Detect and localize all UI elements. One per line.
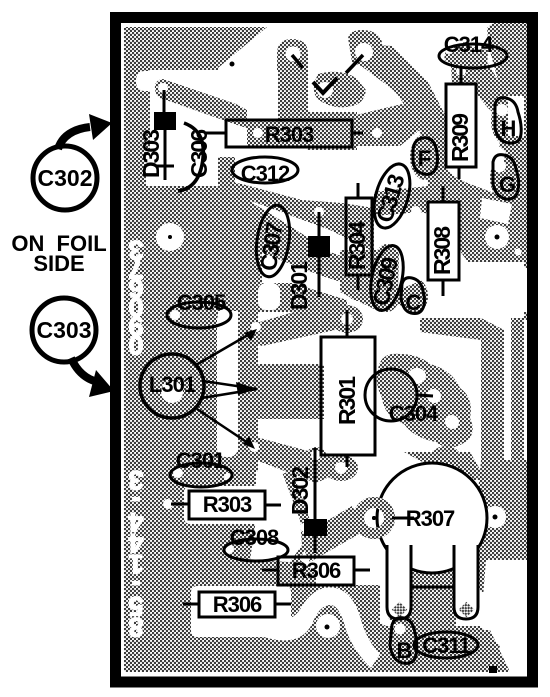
node pad L301 center white <box>161 381 183 403</box>
svg-text:R303: R303 <box>203 492 252 517</box>
wire vertical white strip S1 <box>217 311 238 457</box>
copper trace: wedge right of R303 <box>352 104 432 146</box>
node pad in R303 white (restored) <box>253 128 263 138</box>
node pad arm1 white <box>251 322 261 332</box>
wire R307 left lead <box>392 517 414 520</box>
diode D301 body <box>308 236 330 257</box>
pin pad diamond right leg <box>459 602 475 618</box>
node pad R309 top white <box>456 66 466 76</box>
capacitor C306 bracket <box>178 123 203 191</box>
white triangle bottom right of R308 <box>458 268 528 312</box>
wire R307 legs crossbar <box>411 586 454 589</box>
copper trace: right vertical stripe B <box>511 318 524 555</box>
wire L301 pointer wedge <box>236 382 257 395</box>
capacitor C313 oval <box>368 160 417 232</box>
wire C302 arrow <box>58 127 90 149</box>
copper trace: top band <box>218 27 267 68</box>
svg-text:090673: 090673 <box>128 235 143 360</box>
capacitor C303 callout circle <box>32 298 96 362</box>
node pad P1 white <box>286 47 301 62</box>
copper trace: arm2 to R301 mid wide <box>238 364 324 419</box>
node pad above C304 white <box>408 368 426 384</box>
wire C303 arrow <box>71 358 98 382</box>
svg-text:C311: C311 <box>422 633 470 658</box>
copper trace: under R303 top band <box>247 112 357 150</box>
white wedge bottom right <box>482 560 528 640</box>
white pocket top-left <box>150 70 278 150</box>
node pad C305 left white <box>170 310 180 320</box>
copper trace: band below R304 <box>340 250 406 312</box>
svg-text:R308: R308 <box>429 226 455 275</box>
resistor R307 leg left <box>387 545 411 619</box>
copper trace: vertical finger to R303 <box>277 39 308 119</box>
copper trace: blob under F <box>410 134 440 180</box>
copper trace: arm P3 right <box>351 37 504 218</box>
node pad small white <box>411 206 421 216</box>
wire R308 bottom lead <box>442 280 445 296</box>
wire R304 top lead <box>357 183 360 198</box>
copper trace: mid diagonal band C312 to R304 <box>220 180 374 252</box>
svg-text:C303: C303 <box>37 317 92 343</box>
copper trace: stripe right of R309 <box>450 46 488 86</box>
resistor R309 box <box>446 84 476 167</box>
capacitor C308 <box>224 539 288 561</box>
wire white channel below G <box>480 198 512 224</box>
node pad D301 top white <box>314 207 324 217</box>
node pad ring center white <box>364 508 384 528</box>
svg-text:F: F <box>418 146 431 171</box>
copper trace: bottom center band <box>300 600 500 672</box>
diode D302 body <box>304 519 327 536</box>
node G oval <box>493 155 519 199</box>
node pad P3 white <box>317 82 333 98</box>
wire D302 bottom lead <box>314 536 317 553</box>
copper trace: pad blob G <box>490 155 520 201</box>
wire L301 pointer line 1 <box>196 332 253 365</box>
pin pad diamond left leg <box>392 602 408 618</box>
node pad arm3 white <box>249 442 259 452</box>
copper trace: right edge band upper <box>452 112 528 262</box>
node C oval <box>401 278 425 314</box>
node pad C304 right white <box>427 389 441 403</box>
board frame <box>116 18 533 683</box>
capacitor C301 <box>170 463 232 487</box>
copper trace: R304 bottom pad blob <box>347 279 369 301</box>
svg-text:G: G <box>499 172 515 197</box>
node pad small white2 <box>403 245 413 255</box>
wire D303 bottom lead <box>164 130 167 180</box>
svg-text:H: H <box>501 116 516 141</box>
copper trace: right vertical stripe A <box>420 318 504 560</box>
svg-text:R306: R306 <box>213 592 262 617</box>
copper trace: bottom left quadrant block <box>124 460 218 672</box>
white board id text 090673 <box>128 235 143 360</box>
copper trace: wedge right of lower R303 <box>268 470 310 530</box>
wire R303 right lead <box>352 132 363 135</box>
copper trace: between R307 legs <box>410 568 456 630</box>
copper trace: above R307 band <box>404 452 486 480</box>
copper trace: R301 bottom pad blob <box>324 455 358 481</box>
resistor R307 leg right <box>454 545 478 619</box>
copper trace: pad blob H <box>491 97 523 145</box>
copper trace: block left of C312 <box>218 157 235 185</box>
wire L301 pointer line 4 <box>197 409 251 445</box>
copper trace: left mid fill patch <box>218 183 262 311</box>
svg-text:SIDE: SIDE <box>33 251 84 276</box>
svg-text:85-144-3: 85-144-3 <box>128 465 143 642</box>
copper trace: C304 blob cluster <box>377 354 473 448</box>
capacitor C305 <box>167 302 231 328</box>
node H oval <box>495 98 521 143</box>
copper trace: left of lower R303 <box>218 486 226 524</box>
wire white arc channel bottom <box>258 587 380 668</box>
copper trace: around C301/C305 mid block <box>218 452 268 520</box>
copper trace: blob below C304 <box>432 446 460 466</box>
copper trace: under R304/R308 band <box>374 186 448 218</box>
wire L301 pointer line 2 <box>203 381 257 389</box>
capacitor C312 <box>232 157 298 183</box>
copper trace: arm3 lower diagonal <box>242 438 334 483</box>
copper trace: left ground plane column <box>124 27 218 672</box>
resistor R306 center box <box>278 557 354 585</box>
white area left of R308 <box>398 215 428 290</box>
copper trace: R303 box interior left <box>247 120 278 147</box>
copper trace: C309 blob <box>370 244 404 312</box>
capacitor C311 <box>414 632 478 658</box>
diode D303 body <box>154 112 176 130</box>
svg-text:C301: C301 <box>176 448 225 473</box>
wire R306 center right lead <box>354 569 370 572</box>
wire R303 lower left lead <box>171 503 189 506</box>
copper trace: C blob <box>400 278 428 314</box>
resistor R303 top box <box>226 120 352 147</box>
svg-text:C302: C302 <box>38 165 93 191</box>
wire R303 left lead <box>206 132 226 135</box>
copper trace: check pad blob P3 <box>314 72 366 108</box>
node pad below C304 white <box>445 415 459 429</box>
wire R309 top lead <box>460 67 463 84</box>
wire channel top-left white <box>136 71 164 91</box>
copper trace: bottom strip <box>124 618 510 672</box>
wire D301 top lead <box>318 212 321 236</box>
node B oval <box>390 618 417 664</box>
wire lead slash at pad P2 <box>346 55 363 73</box>
node pad R304 top white <box>353 176 363 186</box>
copper trace: B C311 surround <box>388 616 430 640</box>
copper trace: connect to R301 pad <box>258 283 347 320</box>
resistor R308 box <box>428 202 459 280</box>
node pad in G white <box>494 160 506 172</box>
wire D302 top lead <box>314 448 317 519</box>
capacitor C309 oval <box>365 243 408 314</box>
copper trace: right of R307 band <box>470 460 528 600</box>
resistor R303 lower box <box>189 491 265 519</box>
svg-text:D302: D302 <box>287 467 313 515</box>
svg-text:C304: C304 <box>389 401 439 426</box>
svg-text:C: C <box>406 290 422 315</box>
wire R303 lower right lead <box>265 504 281 507</box>
svg-text:B: B <box>397 638 412 663</box>
wire L301 pointer line 3 <box>202 389 257 398</box>
copper trace: C308 to ring pad arm <box>298 506 366 562</box>
svg-text:C306: C306 <box>186 130 212 178</box>
wire white gap right edge <box>508 96 524 136</box>
wire R309 bottom lead <box>458 167 461 179</box>
copper trace: top pad blob P2 with arm <box>348 30 382 70</box>
node pad D302 top white <box>311 450 321 460</box>
copper trace: band through C307 D301 C309 <box>218 195 404 306</box>
node pad right of R307 white <box>484 506 506 528</box>
wire R301 bottom lead <box>346 455 349 467</box>
node pad in R303 top white <box>253 128 263 138</box>
node pad C305 right white <box>219 309 229 319</box>
svg-text:R301: R301 <box>334 376 360 425</box>
capacitor C307 oval <box>252 203 294 279</box>
small black mark bottom right <box>489 666 497 673</box>
node pad top-left white <box>156 223 184 251</box>
wire vertical white strip S2 <box>258 283 280 310</box>
copper trace: arm P2 to F <box>356 44 452 162</box>
node pad bottom-left white <box>316 614 340 638</box>
node pad C308 left white <box>224 544 234 554</box>
svg-text:L301: L301 <box>149 372 196 397</box>
svg-text:C308: C308 <box>230 525 279 550</box>
resistor R307 circle <box>377 463 487 573</box>
post-white gray <box>155 79 278 185</box>
wire D303 top lead <box>163 90 166 112</box>
LEFT-ANNOT <box>11 114 114 397</box>
resistor R304 box <box>346 198 372 275</box>
small black dot top <box>230 62 235 67</box>
copper trace: arm1 to R301 upper <box>243 305 335 346</box>
wire R301 top lead <box>346 310 349 337</box>
copper trace: top right corner band <box>487 22 528 120</box>
wire C304 lead <box>417 395 433 396</box>
node pad C313 bottom white <box>379 229 386 236</box>
white around bottom R306 <box>191 586 291 637</box>
wire white channel H-G <box>474 132 506 174</box>
node pad lower R303 left white <box>163 499 173 509</box>
wire R306 bottom right lead <box>275 603 291 606</box>
capacitor C302 callout circle <box>33 146 97 210</box>
node pad P5 white <box>485 225 509 249</box>
wire R306 bottom left lead <box>183 603 199 606</box>
node pad in H white <box>496 104 508 116</box>
wire R308 top lead <box>442 186 445 202</box>
node pad R301 bottom white <box>335 462 347 474</box>
copper trace: R301 top pad blob <box>331 305 363 333</box>
wire D301 bottom lead <box>318 257 321 297</box>
node ring pad left of R307 <box>359 503 390 534</box>
copper trace: gray finger between strips <box>238 280 258 482</box>
resistor R301 box <box>321 337 375 455</box>
copper trace: diagonal finger top-left <box>155 79 247 128</box>
node pad finger tip white <box>158 83 168 93</box>
white board id text 85-144-3 <box>128 465 143 642</box>
svg-text:R304: R304 <box>344 221 370 270</box>
node pad dots <box>495 235 500 240</box>
svg-text:R309: R309 <box>447 114 473 162</box>
copper trace: big bottom-left mass <box>218 545 316 640</box>
copper trace: below R303 box band <box>218 520 310 560</box>
svg-text:D303: D303 <box>138 130 164 178</box>
svg-text:R303: R303 <box>265 122 314 147</box>
node pad P2 white <box>355 43 373 61</box>
BLACK-LAYER <box>116 18 533 683</box>
svg-text:C305: C305 <box>177 290 226 315</box>
copper trace: D302 pad blob <box>305 447 327 469</box>
capacitor C314 <box>439 44 507 68</box>
node F oval <box>413 138 438 175</box>
node pad C314 left white <box>444 44 454 54</box>
WHITE-CUTS <box>136 43 528 668</box>
white channel C308 diagonal <box>250 472 302 562</box>
svg-text:R306: R306 <box>292 558 341 583</box>
wire check mark at pad P3 <box>313 78 337 93</box>
wire R306 center left lead <box>262 569 278 572</box>
node pad near P5 white <box>515 249 522 256</box>
copper trace: ring pad left of R307 <box>353 497 395 539</box>
svg-text:D301: D301 <box>286 261 312 310</box>
node pad R301 top white <box>341 313 353 325</box>
node pad B white <box>395 624 406 635</box>
resistor R306 bottom box <box>199 592 275 617</box>
copper trace: below R306 center mass <box>292 585 380 648</box>
white around lower R303 <box>184 486 268 524</box>
node pad C301 left white <box>173 468 183 478</box>
GRAY-LAYER <box>124 22 529 672</box>
svg-text:C314: C314 <box>444 32 494 57</box>
copper trace: right edge thin strip <box>524 95 529 320</box>
copper trace: stripe under C314 to R309 <box>444 45 514 124</box>
wire R304 bottom lead <box>357 275 360 290</box>
node pad C301 right white <box>224 473 232 481</box>
copper trace: C301 area band <box>218 440 238 486</box>
wire lead slash at pad P1 <box>292 55 303 68</box>
inductor L301 circle <box>140 354 204 418</box>
svg-text:C312: C312 <box>241 161 290 186</box>
node pad right of R303 white <box>372 128 382 138</box>
capacitor C304 circle <box>365 369 417 421</box>
